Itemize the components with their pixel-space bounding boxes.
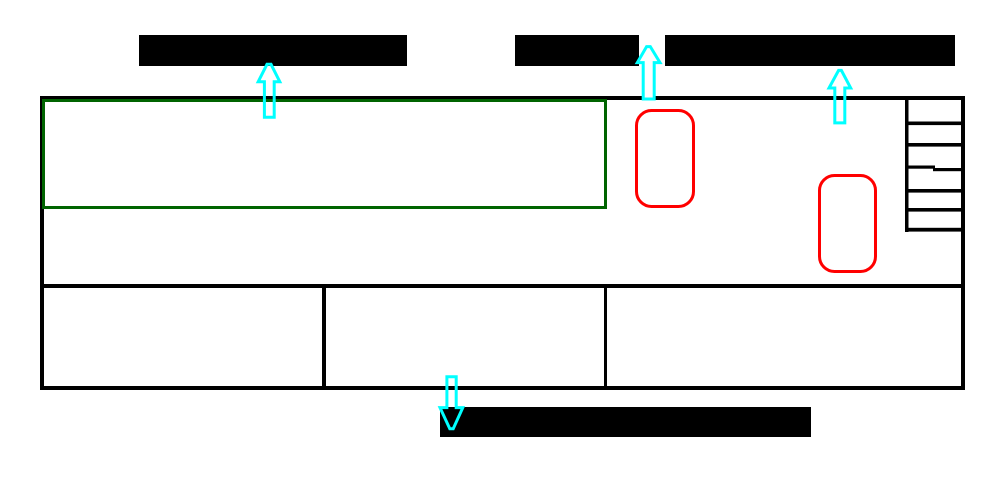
ladder rung 4 — [905, 189, 965, 193]
ladder rung 3 left (stepped) — [905, 166, 935, 169]
ladder rung 5 — [905, 208, 965, 212]
label bar bottom (redacted) — [440, 407, 811, 437]
label bar top-middle (redacted) — [515, 35, 639, 66]
vertical divider 1 — [322, 284, 326, 390]
red rounded rect 1 — [637, 111, 694, 207]
cyan down arrow 4 (above bottom bar) — [440, 377, 463, 429]
label bar top-left (redacted) — [139, 35, 407, 66]
ladder rung 2 — [905, 143, 965, 147]
ladder rung 6 (bottom) — [905, 228, 965, 232]
ladder left vertical — [905, 96, 909, 232]
cyan up arrow 2 (right of top-middle bar, white filled) — [637, 47, 660, 99]
vertical divider 2 — [604, 285, 607, 390]
main outline box — [42, 98, 963, 388]
ladder rung 1 — [905, 122, 965, 126]
red rounded rect 2 — [820, 176, 876, 272]
horizontal divider — [40, 284, 965, 288]
ladder rung 3 right (stepped) — [933, 168, 965, 171]
cyan up arrow 3 (below top-right bar) — [829, 70, 851, 123]
cyan up arrow 1 (below top-left bar) — [258, 64, 280, 117]
label bar top-right (redacted) — [665, 35, 955, 66]
green rectangle — [44, 101, 606, 208]
